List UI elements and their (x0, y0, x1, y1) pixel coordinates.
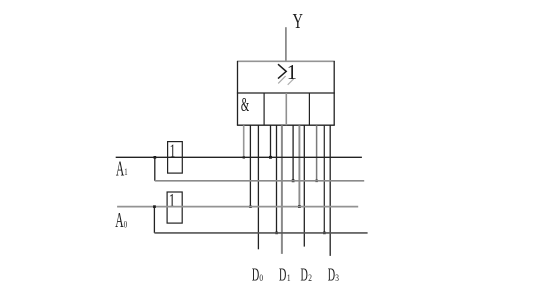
svg-text:0: 0 (124, 220, 128, 230)
node A1 label (116, 157, 128, 181)
svg-text:3: 3 (335, 272, 339, 283)
and-cell divider 3 (308, 93, 310, 125)
node D0 label (252, 266, 263, 286)
node D2 label (301, 266, 312, 286)
wire branch B1 (A1 direct drop) (154, 157, 156, 181)
wire L4 (A0 direct, y=232.9) (154, 232, 367, 234)
inverter G1 box (168, 142, 183, 174)
and-array divider line (237, 92, 335, 94)
or-gate U1 box (237, 61, 335, 125)
inverter G2 box (167, 192, 182, 223)
svg-text:A: A (116, 157, 125, 181)
pin P5 (gate2 A0 input) (275, 125, 278, 234)
label & (and symbol) (241, 92, 249, 116)
wire L1 (A1 input / inverter output, y=157.3) (116, 156, 362, 158)
svg-text:0: 0 (259, 272, 263, 283)
inverter G2 label 1 (169, 190, 175, 211)
label >1 (or symbol) (278, 60, 297, 85)
pin P8 (gate3 A0-bar input) (298, 125, 301, 208)
inverter G1 label 1 (170, 142, 176, 162)
pin P7 (gate3 A1 input) (292, 125, 295, 182)
svg-text:D: D (252, 266, 259, 286)
pin P1 (gate1 A1-bar input) (243, 125, 245, 158)
node D1 label (279, 266, 291, 286)
pin P6 (gate2 D1 input) (281, 125, 283, 254)
svg-text:D: D (301, 266, 308, 286)
pin P11 (gate4 A0 input) (323, 125, 326, 234)
pin P4 (gate2 A1-bar input) (269, 125, 272, 159)
node A0 label (115, 209, 127, 233)
pin P12 (gate4 D3 input) (329, 125, 331, 256)
node D3 label (328, 266, 339, 286)
pin P2 (gate1 A0-bar input) (249, 125, 252, 208)
pin P9 (gate3 D2 input) (303, 125, 305, 246)
svg-text:&: & (241, 92, 249, 116)
junction A0 branch (153, 205, 156, 208)
wire L2 (A1 direct, y=180.8) (155, 180, 364, 182)
svg-text:A: A (115, 209, 124, 233)
svg-text:1: 1 (287, 272, 291, 283)
pin P10 (gate4 A1 input) (315, 125, 318, 182)
svg-text:2: 2 (308, 272, 312, 283)
and-array bottom edge (237, 124, 335, 126)
and-cell divider 1 (263, 93, 265, 125)
node Y (293, 9, 303, 32)
junction A1 branch (154, 156, 157, 159)
svg-text:1: 1 (169, 190, 175, 211)
svg-text:1: 1 (170, 142, 176, 162)
svg-text:1: 1 (287, 60, 297, 85)
svg-text:Y: Y (293, 9, 303, 32)
wire branch B2 (A0 direct drop) (153, 207, 155, 233)
wire L3 (A0 input / inverter output, y=206.6) (117, 206, 358, 208)
svg-text:1: 1 (124, 167, 127, 177)
svg-text:D: D (279, 266, 286, 286)
pin P3 (gate1 D0 input) (257, 125, 259, 249)
svg-text:D: D (328, 266, 335, 286)
wire Y output (285, 27, 287, 62)
and-cell divider 2 (285, 93, 287, 125)
